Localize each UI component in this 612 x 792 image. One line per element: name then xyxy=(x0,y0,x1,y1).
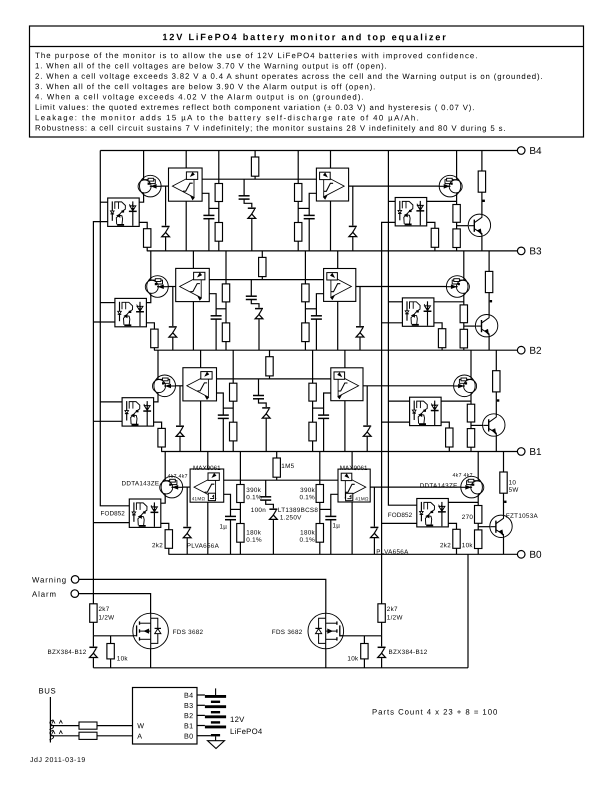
wire zener D10 right xyxy=(381,636,383,668)
resistor R11 2k7 right xyxy=(378,604,385,623)
resistor R3e 2k2 xyxy=(438,329,445,348)
wire opto U4a cathode xyxy=(139,222,147,251)
wire Warning rail xyxy=(93,222,107,604)
svg-text:FDS 3682: FDS 3682 xyxy=(173,629,204,636)
svg-text:Leakage: the monitor adds 15 µ: Leakage: the monitor adds 15 µA to the b… xyxy=(35,113,420,122)
wire opto U4d cathode xyxy=(427,222,435,251)
wire MOSFET M2 source xyxy=(325,649,327,668)
optocoupler U1d xyxy=(417,499,449,527)
svg-text:390k: 390k xyxy=(246,487,261,494)
battery B1-B4 cells xyxy=(205,688,226,740)
svg-text:0.1%: 0.1% xyxy=(246,494,262,501)
wire Q4b column xyxy=(456,151,458,251)
resistor R3a 390k xyxy=(222,284,229,302)
wire opto U3d anode xyxy=(434,301,464,303)
wire Q2c base xyxy=(471,424,483,426)
resistor R3f 270 xyxy=(460,305,467,323)
wire cap C4c branch xyxy=(309,193,316,215)
svg-text:PLVA656A: PLVA656A xyxy=(376,549,409,556)
wire opto U1d out bottom xyxy=(382,522,417,524)
wire Q1b column xyxy=(477,452,479,555)
optocoupler U2d xyxy=(410,397,442,425)
svg-text:MAX9061: MAX9061 xyxy=(340,465,368,472)
svg-text:DDTA143ZE: DDTA143ZE xyxy=(121,480,159,487)
resistor R3c 1M5 xyxy=(259,257,266,276)
wire zener D1a xyxy=(186,487,188,554)
wire Q4a emitter-collector xyxy=(139,151,143,203)
wire divider R2d column xyxy=(312,350,314,451)
wire Warning output xyxy=(79,579,326,613)
wire opto U2d out top xyxy=(388,400,409,402)
svg-text:B4: B4 xyxy=(529,146,542,157)
wire reference D2r xyxy=(258,379,260,396)
svg-text:41MΩ: 41MΩ xyxy=(355,496,369,501)
reference D4r LT1389 xyxy=(248,207,256,219)
resistor R4h 10R 5W xyxy=(478,171,485,192)
svg-text:4k7 4k7: 4k7 4k7 xyxy=(452,473,472,479)
wire zener D2b xyxy=(366,386,368,452)
zener D1b PLVA656A xyxy=(370,527,378,539)
svg-text:B1: B1 xyxy=(184,721,193,730)
wire resistor R12 10k xyxy=(363,636,365,668)
comparator U4b MAX9061 xyxy=(169,168,203,201)
wire Q3b column xyxy=(463,251,465,350)
resistor R2a2 180k xyxy=(230,422,237,441)
resistor R2h 10R 5W xyxy=(493,371,500,392)
svg-text:1µ: 1µ xyxy=(332,523,340,530)
optocoupler U4d xyxy=(395,198,427,226)
wire cap C2c branch xyxy=(324,393,331,415)
wire shunt column row 4 xyxy=(481,151,483,251)
capacitor C3b 100n xyxy=(246,296,257,299)
resistor R12 10k xyxy=(361,644,368,659)
capacitor C2b 100n xyxy=(253,396,264,399)
terminal B4 xyxy=(517,146,542,157)
svg-text:4k7 4k7: 4k7 4k7 xyxy=(167,474,187,480)
svg-text:B0: B0 xyxy=(184,732,193,741)
resistor R1d 390k xyxy=(316,485,323,503)
svg-text:41MΩ: 41MΩ xyxy=(192,496,206,501)
wire opto U3a out bottom xyxy=(93,321,115,323)
wire gate node left xyxy=(92,622,94,636)
node input line row 1 xyxy=(219,479,342,481)
junction shunt row 1 xyxy=(504,501,506,503)
bus stem xyxy=(49,697,51,743)
resistor R4g 10k xyxy=(453,229,460,248)
wire shunt column row 1 xyxy=(503,452,505,555)
resistor R1f 270 xyxy=(475,506,482,524)
connector box xyxy=(133,688,198,745)
svg-text:5W: 5W xyxy=(509,487,519,494)
wire opamp U4c output xyxy=(349,185,439,187)
wire divider R1d column xyxy=(319,452,321,555)
transistor Q3a DDTA143ZE xyxy=(145,276,168,298)
svg-text:FOD852: FOD852 xyxy=(388,512,413,519)
wire reference D4r xyxy=(243,179,245,196)
transistor Q2c FZT1053A xyxy=(483,414,505,436)
resistor R2c 1M5 xyxy=(266,357,273,376)
svg-text:LT1389BCS8: LT1389BCS8 xyxy=(278,507,319,514)
wire B0 return xyxy=(467,554,469,668)
wire Q3a base xyxy=(168,286,179,288)
svg-text:4. When a cell voltage exceeds: 4. When a cell voltage exceeds 4.02 V th… xyxy=(35,92,365,101)
svg-text:1/2W: 1/2W xyxy=(98,615,114,622)
terminal B0 xyxy=(517,550,542,561)
wire cell3 bus xyxy=(147,250,518,252)
svg-text:2k2: 2k2 xyxy=(440,542,451,549)
wire opto U3a out top xyxy=(100,302,115,304)
resistor R1b 2k2 xyxy=(165,530,172,549)
wire opto U3a cathode xyxy=(146,323,154,350)
comparator U1b MAX9061 xyxy=(190,469,224,502)
resistor R3d 390k xyxy=(302,284,309,302)
resistor R4e 2k2 xyxy=(431,228,438,247)
junction shunt row 2 xyxy=(497,399,499,401)
terminal B2 xyxy=(517,346,542,357)
wire zener D9 left xyxy=(92,636,94,668)
wire opto U2d cathode xyxy=(441,422,449,451)
svg-text:B2: B2 xyxy=(529,346,542,357)
capacitor C1b 100n xyxy=(260,497,271,500)
ground xyxy=(208,741,225,749)
svg-text:390k: 390k xyxy=(300,487,315,494)
resistor R4a 390k xyxy=(215,184,222,202)
wire Alarm rail xyxy=(100,151,129,506)
zener D3b PLVA656A xyxy=(356,326,364,338)
node input line row 3 xyxy=(205,279,328,281)
resistor R2d2 180k xyxy=(309,422,316,441)
resistor R4f 270 xyxy=(453,205,460,223)
wire Q4a base xyxy=(161,185,172,187)
terminal Warning xyxy=(32,576,79,585)
transistor Q3c FZT1053A xyxy=(475,315,497,337)
svg-text:1/2W: 1/2W xyxy=(387,615,403,622)
svg-text:B2: B2 xyxy=(184,711,193,720)
transistor Q3b DDTA143ZE xyxy=(446,276,469,298)
svg-text:JdJ 2011-03-19: JdJ 2011-03-19 xyxy=(30,757,86,764)
svg-text:1M5: 1M5 xyxy=(281,463,294,470)
zener D1a PLVA656A xyxy=(183,527,191,539)
wire opamp U4b supply xyxy=(185,151,187,169)
transistor Q1b DDTA143ZE xyxy=(461,476,484,498)
capacitor C4c 1u xyxy=(304,215,315,218)
zener D2b PLVA656A xyxy=(363,425,371,437)
svg-text:PLVA656A: PLVA656A xyxy=(187,543,220,550)
svg-text:FOD852: FOD852 xyxy=(100,510,125,517)
capacitor C1a 1u xyxy=(225,516,236,519)
wire shunt column row 2 xyxy=(495,350,497,451)
svg-text:BZX384-B12: BZX384-B12 xyxy=(388,649,427,656)
wire cell2 bus xyxy=(154,349,517,351)
wire opamp U2b supply xyxy=(200,350,202,368)
svg-text:3. When all of the cell voltag: 3. When all of the cell voltages are bel… xyxy=(35,82,376,91)
zener D10 BZX384-B12 xyxy=(377,646,385,658)
series box W xyxy=(79,722,97,729)
comparator U2c MAX9061 xyxy=(331,368,363,401)
resistor R1e 2k2 xyxy=(453,529,460,548)
wire shunt column row 3 xyxy=(488,251,490,350)
svg-text:12V: 12V xyxy=(230,715,245,724)
resistor R3h 10R 5W xyxy=(485,271,492,292)
svg-text:B4: B4 xyxy=(184,691,193,700)
svg-text:B1: B1 xyxy=(529,447,542,458)
optocoupler U3a xyxy=(115,298,146,326)
svg-text:BUS: BUS xyxy=(38,687,56,696)
wire Alarm output xyxy=(79,594,151,614)
title box xyxy=(30,26,584,137)
svg-text:1. When all of the cell voltag: 1. When all of the cell voltages are bel… xyxy=(35,61,388,70)
resistor R1d2 180k xyxy=(316,524,323,543)
svg-text:Robustness: a cell circuit sus: Robustness: a cell circuit sustains 7 V … xyxy=(35,124,506,133)
svg-text:B3: B3 xyxy=(184,701,193,710)
wire Q1c base xyxy=(478,526,490,528)
resistor R1g 10k xyxy=(475,530,482,549)
wire Q1a emitter-collector xyxy=(161,452,165,504)
wire source line xyxy=(93,667,468,669)
wire opamp U4c supply xyxy=(330,151,332,169)
reference D3r LT1389 xyxy=(255,308,263,320)
resistor R2e 2k2 xyxy=(446,428,453,447)
wire opto U2a cathode xyxy=(154,422,162,451)
svg-text:2k7: 2k7 xyxy=(98,606,109,613)
wire zener D3b xyxy=(359,287,361,351)
wire cap C4a branch xyxy=(202,193,209,215)
wire cap C2a branch xyxy=(216,393,223,415)
resistor R1a 390k xyxy=(237,485,244,503)
capacitor C4b 100n xyxy=(239,196,250,199)
wire opto U2a out bottom xyxy=(93,420,122,422)
wire right warning rail xyxy=(382,222,396,603)
wire opamp U1c output xyxy=(370,486,460,488)
wire A lead xyxy=(50,735,79,737)
series box A xyxy=(79,732,97,739)
capacitor C2c 1u xyxy=(318,415,329,418)
wire opto U1d cathode xyxy=(448,523,456,554)
wire divider R4d column xyxy=(297,151,299,251)
transistor Q1a DDTA143ZE xyxy=(160,476,183,498)
svg-text:0.1%: 0.1% xyxy=(246,537,262,544)
wire Q1a base xyxy=(183,486,194,488)
resistor R2g 10k xyxy=(467,429,474,448)
wire opto U3d cathode xyxy=(434,323,442,350)
zener D4a PLVA656A xyxy=(161,226,169,238)
svg-text:Warning: Warning xyxy=(32,576,67,585)
wire feedback R4c xyxy=(254,151,256,180)
resistor R9 2k7 left xyxy=(90,604,97,623)
resistor R3g 10k xyxy=(460,329,467,348)
wire battery taps xyxy=(197,694,205,696)
capacitor C1c 1u xyxy=(325,516,336,519)
svg-text:FZT1053A: FZT1053A xyxy=(506,513,539,520)
zener D9 BZX384-B12 xyxy=(89,646,97,658)
wire right alarm rail xyxy=(388,151,416,506)
wire cap C1a branch xyxy=(224,494,231,516)
wire MOSFET M1 source xyxy=(150,649,152,668)
resistor R2d 390k xyxy=(309,383,316,401)
capacitor C2a 1u xyxy=(218,415,229,418)
resistor R2a 390k xyxy=(230,383,237,401)
svg-text:180k: 180k xyxy=(300,529,315,536)
svg-text:1µ: 1µ xyxy=(219,524,227,531)
wire opamp U1b supply xyxy=(207,452,209,470)
wire opto U3d out top xyxy=(388,301,402,303)
zener D3a PLVA656A xyxy=(169,326,177,338)
svg-text:10: 10 xyxy=(509,480,517,487)
resistor R3d2 180k xyxy=(302,323,309,342)
svg-text:MAX9061: MAX9061 xyxy=(193,465,221,472)
resistor R2b 2k2 xyxy=(158,428,165,447)
svg-text:A: A xyxy=(137,732,142,741)
svg-text:2k7: 2k7 xyxy=(387,606,398,613)
wire opto U1d anode xyxy=(448,501,478,503)
wire Q4c base xyxy=(457,225,469,227)
wire zener D1b xyxy=(373,487,375,554)
wire opto U4d out top xyxy=(388,200,395,202)
zener D2a PLVA656A xyxy=(176,425,184,437)
wire Q3c base xyxy=(464,325,476,327)
terminal B3 xyxy=(517,246,542,257)
wire zener D4a xyxy=(165,186,167,251)
svg-text:DDTA143ZE: DDTA143ZE xyxy=(420,483,458,490)
capacitor C3c 1u xyxy=(311,316,322,319)
svg-text:2k2: 2k2 xyxy=(152,542,163,549)
resistor R4b 2k2 xyxy=(144,229,151,248)
svg-text:180k: 180k xyxy=(246,530,261,537)
svg-text:Parts Count 4 x 23 + 8 = 100: Parts Count 4 x 23 + 8 = 100 xyxy=(372,708,498,717)
zener D4b PLVA656A xyxy=(349,226,357,238)
wire opto U2d out bottom xyxy=(382,421,410,423)
svg-text:The purpose of the monitor is: The purpose of the monitor is to allow t… xyxy=(35,51,479,60)
wire Q3a emitter-collector xyxy=(146,251,150,303)
terminal Alarm xyxy=(32,590,79,599)
wire zener D3a xyxy=(172,287,174,351)
optocoupler U2a xyxy=(122,398,154,426)
svg-text:10k: 10k xyxy=(462,542,474,549)
resistor R10 10k xyxy=(107,644,114,659)
wire opto U4d anode xyxy=(427,200,457,202)
junction shunt row 4 xyxy=(483,200,485,202)
node input line row 4 xyxy=(198,178,321,180)
wire opto U4a out top xyxy=(100,201,107,203)
bus wire A break xyxy=(49,730,53,740)
comparator U2b MAX9061 xyxy=(183,368,217,401)
resistor R1c 1M5 xyxy=(273,458,280,477)
transistor Q2b DDTA143ZE xyxy=(454,375,477,397)
wire Q2b column xyxy=(470,350,472,451)
resistor R4c 1M5 xyxy=(251,157,258,176)
wire cell4 bus xyxy=(100,150,517,152)
wire opto U1a out bottom xyxy=(93,522,129,524)
wire Q2a base xyxy=(176,385,187,387)
svg-text:1.250V: 1.250V xyxy=(280,515,302,522)
wire W lead xyxy=(50,725,79,727)
reference D1r LT1389 xyxy=(269,508,277,520)
resistor R4a2 180k xyxy=(215,223,222,242)
node input line row 2 xyxy=(212,378,335,380)
resistor R4d2 180k xyxy=(295,223,302,242)
svg-text:2. When a cell voltage exceeds: 2. When a cell voltage exceeds 3.82 V a … xyxy=(35,72,543,81)
wire opto U3d out bottom xyxy=(382,322,403,324)
svg-text:100n: 100n xyxy=(251,507,266,514)
wire divider R2a column xyxy=(232,350,234,451)
transistor Q4c FZT1053A xyxy=(468,214,490,236)
wire opamp U2c supply xyxy=(344,350,346,368)
wire cap C3a branch xyxy=(209,294,216,316)
wire opamp U3c supply xyxy=(337,251,339,269)
wire Q2a emitter-collector xyxy=(154,350,158,402)
wire opto U2d anode xyxy=(441,400,471,402)
resistor R3a2 180k xyxy=(222,323,229,342)
wire opamp U2c output xyxy=(363,385,453,387)
junction shunt row 3 xyxy=(490,300,492,302)
terminal B1 xyxy=(517,447,542,458)
svg-text:10k: 10k xyxy=(347,655,359,662)
wire divider R3a column xyxy=(225,251,227,350)
optocoupler U1a xyxy=(129,499,161,527)
svg-text:B0: B0 xyxy=(529,550,542,561)
wire zener D4b xyxy=(352,186,354,251)
transistor Q1c FZT1053A xyxy=(490,515,512,537)
wire feedback R1c xyxy=(276,452,278,481)
comparator U3b MAX9061 xyxy=(176,268,210,301)
MOSFET M1 FDS3682 xyxy=(133,613,169,649)
wire cap C3c branch xyxy=(316,294,323,316)
svg-text:0.1%: 0.1% xyxy=(299,537,315,544)
MOSFET M2 FDS3682 xyxy=(308,613,344,649)
transistor Q4b DDTA143ZE xyxy=(439,175,462,197)
wire opamp U3b supply xyxy=(192,251,194,269)
wire resistor R10 10k xyxy=(110,636,112,668)
wire cell1 bus xyxy=(161,451,517,453)
wire reference D1r xyxy=(265,480,267,497)
svg-text:270: 270 xyxy=(462,514,474,521)
wire opamp U3c output xyxy=(356,286,446,288)
wire gate node right xyxy=(381,622,383,636)
wire zener D2a xyxy=(179,386,181,452)
wire cell1 bus B0 xyxy=(168,553,517,555)
resistor R4d 390k xyxy=(295,184,302,202)
comparator U4c MAX9061 xyxy=(316,168,348,201)
svg-text:0.1%: 0.1% xyxy=(299,494,315,501)
resistor R3b 2k2 xyxy=(151,329,158,348)
wire divider R4a column xyxy=(218,151,220,251)
capacitor C3a 1u xyxy=(211,316,222,319)
svg-text:W: W xyxy=(137,721,144,730)
svg-text:Limit values: the quoted extre: Limit values: the quoted extremes reflec… xyxy=(35,103,475,112)
wire feedback R3c xyxy=(261,251,263,280)
wire divider R1a column xyxy=(239,452,241,555)
wire feedback R2c xyxy=(269,350,271,379)
resistor R2f 270 xyxy=(467,404,474,422)
comparator U3c MAX9061 xyxy=(324,269,356,302)
optocoupler U3d xyxy=(402,298,434,326)
capacitor C4a 1u xyxy=(203,215,214,218)
transistor Q2a DDTA143ZE xyxy=(153,375,176,397)
wire cap C1c branch xyxy=(331,494,338,516)
optocoupler U4a xyxy=(108,198,140,226)
svg-text:Alarm: Alarm xyxy=(32,590,57,599)
wire opto U1a cathode xyxy=(161,523,169,554)
comparator U1c MAX9061 xyxy=(338,469,370,502)
svg-text:12V LiFePO4 battery monitor an: 12V LiFePO4 battery monitor and top equa… xyxy=(162,32,447,42)
svg-text:B3: B3 xyxy=(529,246,542,257)
svg-text:10k: 10k xyxy=(117,656,129,663)
wire reference D3r xyxy=(250,280,252,297)
resistor R1h 10R 5W xyxy=(500,472,507,493)
svg-text:BZX384-B12: BZX384-B12 xyxy=(47,649,86,656)
reference D2r LT1389 xyxy=(262,407,270,419)
transistor Q4a DDTA143ZE xyxy=(138,175,161,197)
